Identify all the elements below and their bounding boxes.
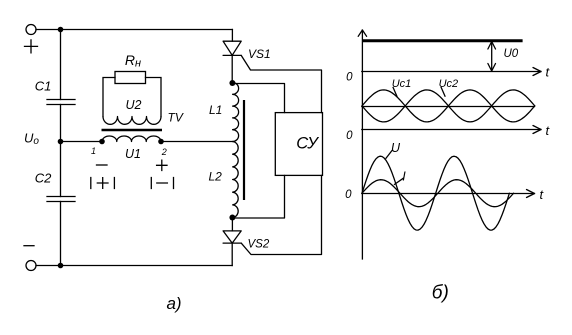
node 2 (U1 right terminal) bbox=[158, 139, 164, 145]
inductor L2 bbox=[233, 142, 239, 218]
junction L2 bottom bbox=[229, 215, 235, 221]
curve I bbox=[362, 180, 514, 207]
svg-text:VS2: VS2 bbox=[248, 239, 270, 251]
polarity mark |-| bbox=[151, 178, 173, 189]
resistor Rн bbox=[115, 72, 146, 84]
terminal top-left (+) bbox=[26, 25, 36, 35]
wire L1 top to CU block bbox=[232, 84, 284, 113]
polarity mark minus under node 1 bbox=[97, 164, 108, 166]
wire bottom rail bbox=[36, 265, 232, 267]
wire U2 loop to resistor bbox=[103, 78, 161, 117]
svg-text:0: 0 bbox=[346, 130, 353, 142]
transformer winding U2 bbox=[103, 117, 161, 125]
polarity mark |+| bbox=[91, 178, 115, 189]
wire left rail lower bbox=[60, 202, 62, 266]
minus polarity mark bbox=[24, 245, 34, 247]
svg-text:0: 0 bbox=[345, 189, 352, 201]
junction middle-left bbox=[58, 139, 64, 145]
wire L2 bottom to CU block bbox=[232, 175, 284, 218]
block CU bbox=[275, 113, 322, 176]
terminal bottom-left (-) bbox=[26, 261, 36, 271]
time axis 3 bbox=[362, 193, 535, 195]
transformer TV winding U1 bbox=[102, 136, 161, 142]
U0 level thick line bbox=[362, 39, 523, 42]
wire middle Uo to transformer bbox=[61, 141, 103, 143]
svg-text:Uc1: Uc1 bbox=[392, 78, 412, 90]
wire left rail middle bbox=[60, 105, 62, 197]
svg-text:U2: U2 bbox=[126, 98, 142, 112]
svg-text:C1: C1 bbox=[35, 79, 52, 94]
time axis 2 bbox=[362, 129, 541, 131]
curve Uc1 bbox=[362, 90, 535, 122]
node 1 (U1 left terminal) bbox=[99, 139, 105, 145]
svg-text:I: I bbox=[402, 170, 406, 184]
svg-text:L2: L2 bbox=[209, 170, 223, 184]
junction bottom-left bbox=[58, 263, 64, 269]
svg-text:СУ: СУ bbox=[296, 135, 319, 153]
plot2 centerline bbox=[362, 106, 535, 108]
wire top rail bbox=[36, 29, 232, 31]
capacitor C1 bbox=[47, 100, 75, 105]
curve Uc2 bbox=[362, 90, 535, 122]
svg-text:VS1: VS1 bbox=[248, 47, 271, 61]
wire top rail corner down to VS1 bbox=[231, 30, 233, 42]
transformer core bbox=[102, 129, 163, 131]
svg-text:TV: TV bbox=[168, 111, 184, 125]
plus polarity mark bbox=[25, 40, 38, 53]
svg-text:б): б) bbox=[432, 283, 449, 304]
svg-text:C2: C2 bbox=[35, 171, 52, 186]
polarity mark plus under node 2 bbox=[157, 160, 167, 170]
svg-text:U: U bbox=[391, 141, 401, 155]
thyristor VS1 bbox=[223, 41, 241, 55]
inductor L1 bbox=[233, 83, 239, 142]
wire left rail upper bbox=[60, 30, 62, 100]
wire VS1 gate to CU block bbox=[241, 55, 321, 112]
svg-text:1: 1 bbox=[91, 146, 96, 156]
time axis 1 bbox=[362, 71, 541, 73]
svg-text:a): a) bbox=[166, 294, 181, 313]
svg-text:0: 0 bbox=[346, 72, 353, 84]
junction top-left bbox=[58, 27, 64, 33]
svg-text:L1: L1 bbox=[209, 103, 222, 117]
junction L1 top bbox=[229, 80, 235, 86]
svg-text:U0: U0 bbox=[504, 48, 519, 60]
curve U bbox=[362, 156, 509, 230]
waveform vertical axis bbox=[361, 30, 363, 259]
wire VS2 gate to CU block bbox=[241, 175, 321, 254]
inductor core bar bbox=[243, 100, 245, 200]
svg-text:U1: U1 bbox=[125, 147, 141, 161]
U0 dimension arrow bbox=[491, 41, 493, 71]
capacitor C2 bbox=[47, 197, 75, 202]
thyristor VS2 bbox=[231, 218, 233, 231]
svg-text:2: 2 bbox=[161, 147, 167, 157]
wire transformer to L winding bbox=[161, 141, 233, 143]
